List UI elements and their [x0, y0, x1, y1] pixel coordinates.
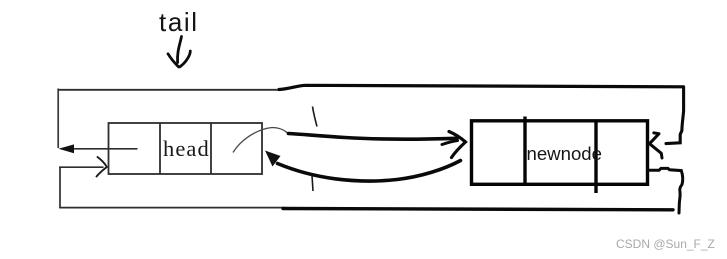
newnode divider 1 (stub above) — [523, 117, 526, 185]
wire newnode-right-out with squiggle down — [648, 168, 683, 213]
arrow newnode-to-head (bottom thick curve with solid arrowhead) — [278, 161, 461, 181]
newnode divider 2 (stub below) — [594, 121, 597, 193]
wire outer-left (tail box left edge) — [57, 89, 59, 149]
arrow head-to-newnode (top thick curve with double chevron) — [289, 134, 458, 140]
svg-text:tail: tail — [159, 7, 199, 37]
arrowhead into newnode right cell — [650, 133, 660, 144]
wire outer-left-lower — [59, 167, 61, 208]
head cell divider 1 — [159, 123, 161, 174]
svg-text:newnode: newnode — [527, 143, 602, 164]
head cell divider 2 — [210, 123, 212, 174]
stray mark upper — [313, 107, 318, 127]
wire outer-bottom (ruled then thick hand-drawn) — [59, 207, 285, 209]
svg-text:CSDN @Sun_F_Z: CSDN @Sun_F_Z — [616, 237, 715, 251]
wire outer-right-down into newnode (tail pointer) — [666, 87, 684, 144]
box newnode — [472, 117, 648, 194]
wire outer-top (ruled part then hand-drawn thick part to right corner) — [58, 89, 282, 91]
box head-node — [109, 123, 263, 174]
stray mark lower — [312, 176, 313, 192]
wire head-next thin arc — [233, 128, 288, 153]
svg-text:head: head — [163, 136, 210, 161]
arrow head-prev-left (line from first cell out to left) — [73, 148, 138, 150]
wire lower-left with chevron into head box — [59, 166, 104, 168]
arrow tail-down — [168, 37, 190, 67]
